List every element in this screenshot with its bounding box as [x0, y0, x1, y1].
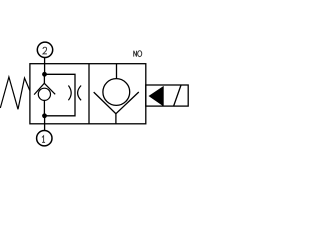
seat arc right	[78, 86, 82, 101]
spring	[0, 77, 30, 109]
check valve seat V	[34, 83, 55, 94]
solenoid triangle	[149, 87, 163, 106]
solenoid slash	[174, 85, 182, 106]
poppet seat V (right box)	[94, 92, 139, 114]
poppet ball (right box)	[103, 79, 130, 106]
valve body outline	[30, 64, 146, 124]
junction dot bottom	[42, 113, 47, 118]
port 2 circle	[37, 42, 52, 57]
label NO	[134, 51, 137, 57]
junction dot top	[42, 72, 47, 77]
inner loop rectangle (pilot passage)	[45, 74, 76, 116]
poppet stem bottom	[115, 114, 117, 124]
port 2 label	[43, 47, 47, 54]
position divider line	[88, 64, 90, 124]
check valve ball C1	[38, 88, 50, 100]
wire node to port1	[44, 116, 46, 131]
poppet stem top (right box)	[116, 64, 118, 79]
seat arc left	[68, 86, 71, 101]
port 1 label	[42, 136, 45, 143]
check valve stem lower	[43, 100, 45, 115]
port 1 circle	[37, 131, 52, 146]
wire port2 to node	[44, 58, 46, 75]
solenoid box	[146, 85, 188, 106]
check valve stem upper	[43, 74, 45, 83]
